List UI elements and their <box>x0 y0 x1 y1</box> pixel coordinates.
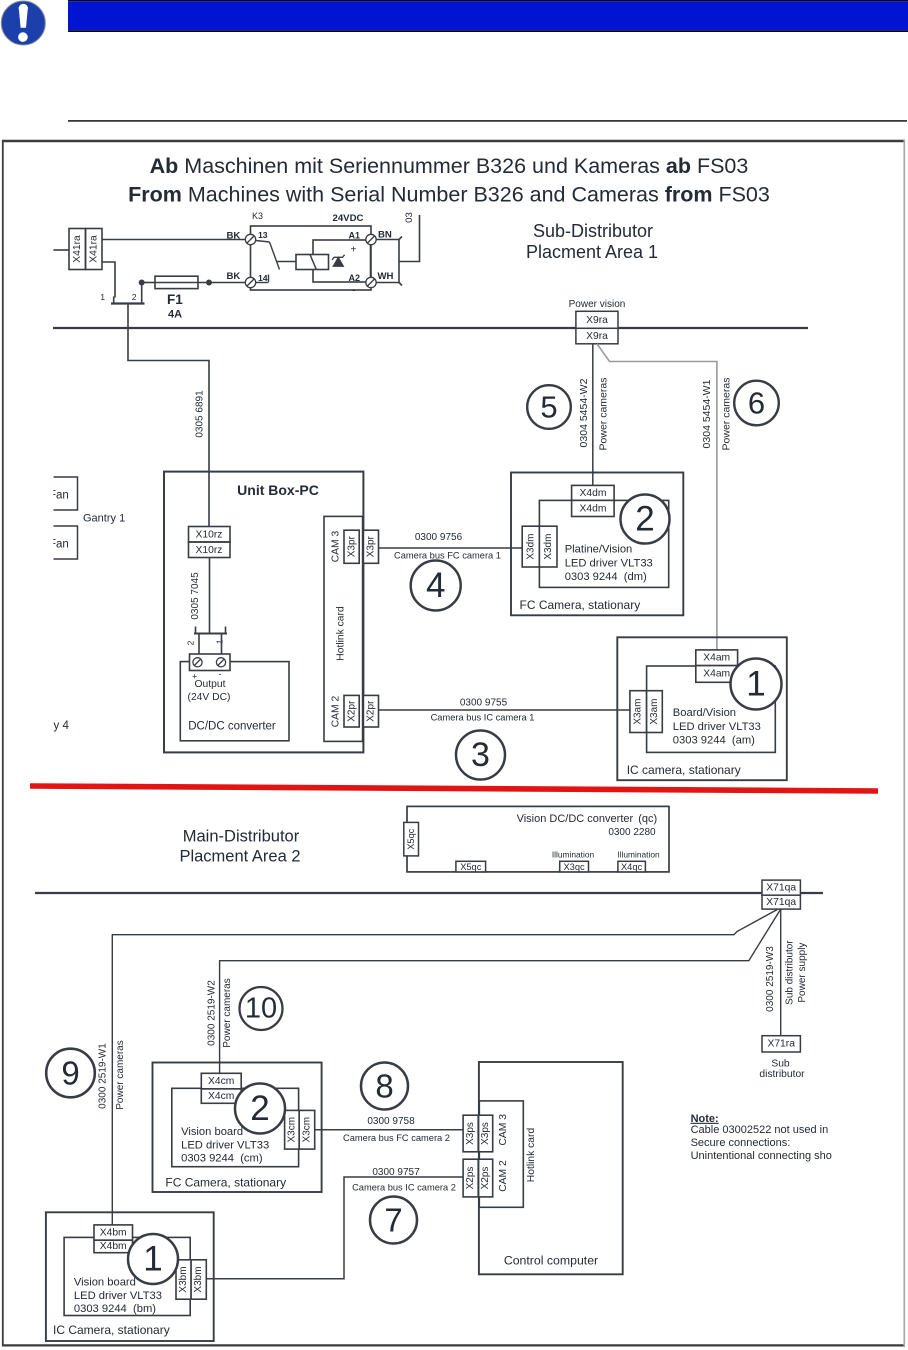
connector X3dm <box>522 526 539 567</box>
svg-text:X4cm: X4cm <box>208 1076 234 1087</box>
fc camera enclosure <box>511 473 683 616</box>
svg-text:distributor: distributor <box>759 1069 805 1080</box>
wire fuse to terminal 14 <box>198 282 246 284</box>
connector X3am <box>630 691 647 733</box>
svg-text:0303 9244 (am): 0303 9244 (am) <box>673 735 755 747</box>
svg-text:Illumination: Illumination <box>617 850 660 860</box>
svg-text:0300 9756: 0300 9756 <box>415 532 463 543</box>
hotlink card box <box>324 516 363 741</box>
junction dot after fuse <box>206 280 212 286</box>
connector X4cm <box>201 1073 241 1089</box>
svg-text:X71qa: X71qa <box>766 897 796 908</box>
svg-text:X41ra: X41ra <box>72 235 83 263</box>
svg-text:2: 2 <box>132 292 137 302</box>
svg-text:7: 7 <box>384 1202 402 1239</box>
wire camera bus FC camera 1 <box>379 547 523 549</box>
svg-text:9: 9 <box>61 1055 79 1092</box>
header blue bar <box>68 0 908 1</box>
connector X5qc bottom <box>456 861 486 872</box>
ic camera enclosure <box>617 637 787 780</box>
connector X4bm <box>94 1225 133 1240</box>
svg-text:1: 1 <box>746 665 765 704</box>
svg-text:0303 9244 (dm): 0303 9244 (dm) <box>565 571 647 583</box>
connector X5qc side <box>404 822 419 856</box>
unit box-pc enclosure <box>164 472 363 753</box>
svg-text:Power cameras: Power cameras <box>598 378 610 451</box>
wire 0300 2519-W2 branch <box>220 909 781 1073</box>
svg-text:Vision board: Vision board <box>181 1126 243 1138</box>
svg-text:6: 6 <box>748 386 765 421</box>
connector X3ps <box>463 1115 478 1152</box>
svg-text:0303 9244 (bm): 0303 9244 (bm) <box>74 1303 156 1315</box>
wire X41ra pin to terminal 13 <box>102 239 246 241</box>
svg-text:X9ra: X9ra <box>586 331 608 342</box>
svg-text:24VDC: 24VDC <box>333 213 364 224</box>
board/vision inner board <box>647 666 776 752</box>
wire 0300 2519-W1 branch <box>112 909 778 1225</box>
rail 1 <box>53 327 808 329</box>
relay coil <box>296 255 329 270</box>
svg-text:0304 5454-W1: 0304 5454-W1 <box>701 379 713 448</box>
svg-text:X10rz: X10rz <box>196 530 223 541</box>
svg-text:Unit Box-PC: Unit Box-PC <box>237 482 319 498</box>
svg-text:Secure connections:: Secure connections: <box>691 1137 791 1149</box>
svg-text:X3am: X3am <box>649 699 660 725</box>
svg-text:X3pr: X3pr <box>346 535 357 557</box>
header info icon <box>1 1 45 45</box>
svg-text:CAM 2: CAM 2 <box>498 1160 509 1192</box>
svg-text:1: 1 <box>100 292 105 302</box>
svg-text:WH: WH <box>378 271 394 282</box>
svg-text:X3pr: X3pr <box>366 535 377 557</box>
svg-text:X3cm: X3cm <box>286 1117 297 1143</box>
svg-text:X71qa: X71qa <box>766 883 796 894</box>
svg-text:X4dm: X4dm <box>580 488 607 499</box>
svg-text:2: 2 <box>250 1089 269 1128</box>
wire 0300 2519-W3 down <box>780 909 782 1036</box>
svg-text:0304 5454-W2: 0304 5454-W2 <box>578 378 590 447</box>
fan box 2 (cut off) <box>54 526 78 559</box>
callout circle 10 <box>240 987 283 1030</box>
fc camera 2 enclosure <box>153 1063 322 1193</box>
connector X2ps <box>463 1159 478 1197</box>
svg-text:Platine/Vision: Platine/Vision <box>565 544 633 556</box>
svg-text:X10rz: X10rz <box>196 545 223 556</box>
svg-text:14: 14 <box>258 273 268 283</box>
svg-text:0300 2519-W3: 0300 2519-W3 <box>765 946 776 1012</box>
svg-text:0305 7045: 0305 7045 <box>190 572 201 620</box>
svg-text:Power supply: Power supply <box>797 943 808 1003</box>
svg-text:X2pr: X2pr <box>366 700 377 722</box>
svg-text:y 4: y 4 <box>54 720 70 732</box>
converter terminal bar <box>194 633 227 635</box>
connector X3qc <box>560 861 589 872</box>
callout circle 5 <box>527 385 571 429</box>
callout circle 3 <box>456 731 505 780</box>
svg-text:0300 2280: 0300 2280 <box>608 827 656 838</box>
svg-text:Power cameras: Power cameras <box>222 978 233 1047</box>
callout circle 1 <box>128 1234 178 1284</box>
terminal 13 crossed circle <box>245 234 255 244</box>
svg-text:+: + <box>351 245 357 256</box>
svg-text:X3bm: X3bm <box>193 1266 204 1292</box>
svg-text:3: 3 <box>471 736 490 774</box>
DC/DC converter box <box>180 662 289 741</box>
node bus bar <box>399 237 402 286</box>
wires bar to screw terminals <box>198 634 200 655</box>
rail 2 <box>35 892 823 894</box>
wire 0304 5454-W2 <box>592 344 594 486</box>
control computer enclosure <box>479 1062 623 1274</box>
svg-text:Power cameras: Power cameras <box>115 1040 126 1109</box>
svg-text:0305 6891: 0305 6891 <box>195 390 206 438</box>
wire BN <box>376 239 399 241</box>
svg-text:Cable 03002522 not used in: Cable 03002522 not used in <box>691 1124 829 1136</box>
wire dot to fuse <box>142 282 155 284</box>
svg-text:F1: F1 <box>167 292 183 307</box>
svg-text:Placment Area 2: Placment Area 2 <box>179 848 300 866</box>
wire blade to coil <box>277 261 296 263</box>
svg-text:Camera bus IC camera 2: Camera bus IC camera 2 <box>352 1183 456 1193</box>
svg-text:Board/Vision: Board/Vision <box>673 707 736 719</box>
wire dot to terminal bar <box>141 283 143 297</box>
wire camera bus IC camera 2 <box>206 1177 463 1279</box>
screw terminal block <box>190 654 231 671</box>
svg-text:X3bm: X3bm <box>178 1266 189 1292</box>
terminal tick 2 <box>141 297 143 304</box>
svg-text:LED driver VLT33: LED driver VLT33 <box>673 721 761 733</box>
callout circle 2 <box>235 1084 285 1134</box>
svg-text:X3qc: X3qc <box>563 862 585 872</box>
svg-text:K3: K3 <box>252 211 263 221</box>
svg-text:X4qc: X4qc <box>621 862 643 872</box>
svg-text:X2ps: X2ps <box>480 1167 491 1190</box>
svg-text:X5qc: X5qc <box>460 862 482 872</box>
wire camera bus FC camera 2 <box>315 1129 463 1131</box>
wire stub left of X41ra <box>54 249 70 251</box>
svg-text:X4am: X4am <box>703 653 730 664</box>
header underline <box>68 120 907 122</box>
svg-text:Sub distributor: Sub distributor <box>785 940 796 1005</box>
svg-text:03: 03 <box>404 212 415 223</box>
svg-text:IC Camera, stationary: IC Camera, stationary <box>53 1323 170 1337</box>
svg-text:2: 2 <box>186 640 196 645</box>
callout circle 1 <box>731 659 782 710</box>
relay K3 box <box>251 226 372 290</box>
tick left <box>195 627 197 634</box>
svg-text:BK: BK <box>227 231 241 242</box>
tick right <box>225 627 227 634</box>
svg-text:LED driver VLT33: LED driver VLT33 <box>74 1290 162 1302</box>
connector X10rz <box>189 527 231 543</box>
svg-text:X9ra: X9ra <box>586 315 608 326</box>
vision board inner box <box>64 1237 190 1315</box>
svg-text:X3cm: X3cm <box>302 1117 313 1143</box>
platine/vision inner board <box>539 500 668 587</box>
svg-text:LED driver VLT33: LED driver VLT33 <box>565 558 653 570</box>
svg-text:Main-Distributor: Main-Distributor <box>183 828 300 846</box>
svg-text:FC Camera, stationary: FC Camera, stationary <box>165 1176 286 1190</box>
svg-text:5: 5 <box>540 390 557 425</box>
terminal 14 crossed circle <box>245 277 255 287</box>
header bar bottom border <box>68 30 908 32</box>
callout circle 7 <box>370 1197 417 1244</box>
svg-text:Power vision: Power vision <box>569 299 626 310</box>
svg-text:Power cameras: Power cameras <box>721 378 733 451</box>
svg-text:1: 1 <box>214 639 225 646</box>
connector X2pr <box>344 695 359 727</box>
svg-text:X71ra: X71ra <box>767 1039 795 1050</box>
svg-text:FC Camera, stationary: FC Camera, stationary <box>520 598 641 612</box>
svg-text:-: - <box>219 669 222 679</box>
connector X71qa <box>762 880 800 895</box>
svg-text:CAM 2: CAM 2 <box>331 696 342 728</box>
svg-text:X3ps: X3ps <box>465 1122 476 1145</box>
svg-text:X3ps: X3ps <box>480 1122 491 1145</box>
terminal A2 crossed circle <box>366 277 376 287</box>
svg-text:X4dm: X4dm <box>580 503 607 514</box>
connector X41ra <box>69 229 102 270</box>
svg-text:Placment Area 1: Placment Area 1 <box>526 242 658 262</box>
svg-text:Gantry 1: Gantry 1 <box>83 513 125 525</box>
svg-text:10: 10 <box>245 993 277 1025</box>
svg-text:Hotlink card: Hotlink card <box>526 1128 537 1183</box>
wire X10rz to converter <box>209 558 211 634</box>
svg-text:(qc): (qc) <box>638 813 657 825</box>
svg-text:(24V DC): (24V DC) <box>188 692 231 703</box>
svg-text:X2ps: X2ps <box>465 1167 476 1190</box>
wire 0304 5454-W1 (grey) <box>597 344 717 650</box>
svg-text:-: - <box>352 286 355 297</box>
svg-text:DC/DC converter: DC/DC converter <box>188 721 276 733</box>
svg-text:X3dm: X3dm <box>526 534 537 560</box>
svg-text:0300 9755: 0300 9755 <box>460 698 508 709</box>
svg-text:X3dm: X3dm <box>543 534 554 560</box>
callout circle 8 <box>361 1063 408 1110</box>
svg-text:Control computer: Control computer <box>504 1254 598 1268</box>
svg-text:0300 2519-W2: 0300 2519-W2 <box>207 980 218 1046</box>
svg-text:0300 2519-W1: 0300 2519-W1 <box>98 1043 109 1109</box>
connector X9ra <box>576 311 618 328</box>
ic camera 2 enclosure <box>46 1212 214 1341</box>
svg-text:X4bm: X4bm <box>100 1241 127 1252</box>
svg-text:A2: A2 <box>349 273 361 283</box>
svg-text:From Machines with Serial Numb: From Machines with Serial Number B326 an… <box>128 183 770 207</box>
svg-text:X41ra: X41ra <box>89 235 100 263</box>
svg-text:X4am: X4am <box>703 669 730 680</box>
svg-text:2: 2 <box>635 500 654 539</box>
svg-text:Camera bus IC camera 1: Camera bus IC camera 1 <box>431 713 535 723</box>
svg-text:Ab Maschinen mit Seriennummer: Ab Maschinen mit Seriennummer B326 und K… <box>150 154 749 178</box>
svg-text:X2pr: X2pr <box>346 700 357 722</box>
svg-text:A1: A1 <box>349 231 361 241</box>
svg-text:0300 9757: 0300 9757 <box>372 1167 420 1178</box>
svg-text:LED driver VLT33: LED driver VLT33 <box>181 1140 269 1152</box>
svg-text:Vision board: Vision board <box>74 1277 136 1289</box>
connector X71ra <box>762 1036 800 1052</box>
wire bus to 03 riser <box>399 215 420 262</box>
svg-text:4: 4 <box>426 566 445 605</box>
svg-text:Output: Output <box>195 679 226 690</box>
svg-text:X4bm: X4bm <box>100 1227 127 1238</box>
svg-text:X5qc: X5qc <box>406 828 416 850</box>
svg-text:0303 9244 (cm): 0303 9244 (cm) <box>181 1153 263 1165</box>
svg-text:Illumination: Illumination <box>552 850 595 860</box>
switch blade <box>256 241 280 283</box>
hotlink card box <box>479 1101 523 1207</box>
svg-text:X3am: X3am <box>633 699 644 725</box>
terminal bar <box>111 302 145 304</box>
svg-text:4A: 4A <box>168 309 182 321</box>
svg-text:0300 9758: 0300 9758 <box>367 1116 415 1127</box>
callout circle 6 <box>734 381 779 426</box>
fuse F1 body <box>155 276 198 288</box>
svg-text:8: 8 <box>375 1068 393 1105</box>
svg-text:Vision DC/DC converter: Vision DC/DC converter <box>517 813 634 825</box>
red section divider <box>30 786 878 791</box>
vision dc/dc converter box <box>407 806 669 872</box>
svg-text:Note:: Note: <box>691 1113 719 1125</box>
terminal tick 1 <box>113 297 115 304</box>
svg-text:BK: BK <box>227 271 241 282</box>
callout circle 9 <box>46 1049 95 1098</box>
connector X4dm <box>572 485 615 500</box>
suppressor diode D1 <box>332 255 345 266</box>
callout circle 4 <box>411 561 461 611</box>
wire WH <box>376 282 399 284</box>
wire camera bus IC camera 1 <box>379 709 630 711</box>
svg-text:Camera bus FC camera 2: Camera bus FC camera 2 <box>343 1133 450 1143</box>
svg-text:CAM 3: CAM 3 <box>498 1114 509 1146</box>
svg-text:Sub-Distributor: Sub-Distributor <box>533 221 653 241</box>
svg-text:Hotlink card: Hotlink card <box>336 606 347 661</box>
svg-text:Camera bus FC camera 1: Camera bus FC camera 1 <box>394 551 501 561</box>
svg-text:13: 13 <box>258 230 268 240</box>
wire terminal bar down to rail and to X10rz <box>128 304 209 527</box>
terminal A1 crossed circle <box>366 234 376 244</box>
connector X3pr <box>344 530 359 563</box>
vision board inner box <box>172 1088 299 1166</box>
svg-text:CAM 3: CAM 3 <box>331 531 342 563</box>
svg-text:Sub: Sub <box>771 1059 790 1070</box>
svg-text:Unintentional connecting sho: Unintentional connecting sho <box>691 1150 832 1162</box>
connector X3cm <box>285 1110 300 1149</box>
connector X4qc <box>618 861 646 872</box>
fan box 1 (cut off) <box>54 477 78 510</box>
wire X41ra pin 2 down <box>102 262 115 298</box>
callout circle 2 <box>621 495 670 544</box>
svg-text:X4cm: X4cm <box>208 1091 234 1102</box>
svg-text:IC camera, stationary: IC camera, stationary <box>627 763 741 777</box>
relay inner box <box>313 240 371 282</box>
connector X4am <box>696 650 738 666</box>
junction dot before fuse <box>139 280 145 286</box>
connector X3bm <box>176 1260 191 1299</box>
svg-text:1: 1 <box>143 1240 162 1279</box>
